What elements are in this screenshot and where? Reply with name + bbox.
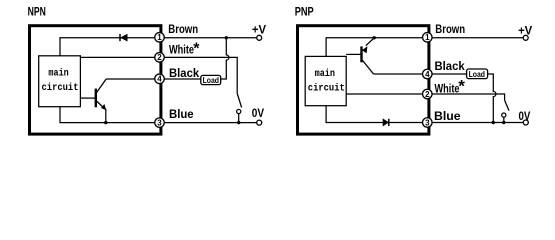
wire: main circuit top to brown rail (NPN) bbox=[60, 38, 155, 56]
wire: base drive from main circuit (PNP) bbox=[346, 53, 360, 55]
svg-text:Load: Load bbox=[469, 69, 485, 79]
svg-text:PNP: PNP bbox=[295, 6, 314, 18]
wire: switch stub to 0V rail (PNP) bbox=[503, 117, 505, 122]
terminal pin 3 (PNP) bbox=[423, 118, 433, 128]
wire: brown lead to +V (PNP) bbox=[432, 37, 523, 39]
terminal pin 2 (NPN) bbox=[155, 53, 165, 63]
wire: main circuit bottom to blue rail (NPN) bbox=[60, 107, 155, 123]
wire: switch stub to 0V rail (NPN) bbox=[238, 114, 240, 123]
svg-text:0V: 0V bbox=[252, 106, 264, 120]
terminal pin 4 (NPN) bbox=[155, 74, 165, 84]
svg-text:Blue: Blue bbox=[434, 109, 461, 123]
svg-text:1: 1 bbox=[425, 33, 430, 42]
sensor body box (NPN) bbox=[30, 26, 161, 134]
switch S1 blade (NPN) bbox=[237, 93, 241, 107]
terminal pin 3 (NPN) bbox=[155, 118, 165, 128]
svg-text:*: * bbox=[193, 41, 200, 58]
wire: black lead to load (PNP) bbox=[432, 73, 467, 75]
main circuit block U2 (PNP) bbox=[305, 56, 346, 105]
wire: collector to pin 4 (PNP) bbox=[374, 73, 423, 75]
junction dot brown/load (NPN) bbox=[225, 36, 228, 39]
diode D2 reverse-protection (PNP) bbox=[383, 119, 389, 126]
terminal pin 1 (NPN) bbox=[155, 33, 165, 43]
main circuit label (NPN) bbox=[42, 68, 79, 94]
svg-text:2: 2 bbox=[425, 90, 430, 99]
svg-text:NPN: NPN bbox=[28, 7, 46, 19]
svg-text:0V: 0V bbox=[519, 109, 531, 123]
wire: brown lead to +V (NPN) bbox=[164, 37, 256, 39]
svg-text:3: 3 bbox=[425, 118, 430, 127]
terminal pin 4 (PNP) bbox=[423, 69, 433, 79]
wire: load to +V rail with hop over white (NPN) bbox=[221, 38, 229, 79]
svg-text:*: * bbox=[458, 77, 465, 96]
wire: emitter down to 0V rail (NPN) bbox=[105, 109, 107, 123]
terminal pin 2 (PNP) bbox=[423, 89, 433, 99]
transistor Q2 PNP output bbox=[362, 38, 375, 74]
svg-text:1: 1 bbox=[157, 33, 162, 42]
svg-text:White: White bbox=[435, 82, 460, 96]
main circuit label (PNP) bbox=[308, 68, 345, 94]
wire: white control from main circuit to pin 2 (PNP) bbox=[346, 93, 422, 95]
svg-text:Brown: Brown bbox=[168, 22, 198, 36]
main circuit block U1 (NPN) bbox=[39, 56, 81, 107]
wire: blue lead to 0V (PNP) bbox=[432, 122, 523, 124]
terminal 0V (NPN) bbox=[257, 120, 262, 125]
wire: main circuit bottom to blue rail (PNP) bbox=[326, 106, 423, 123]
terminal +V (NPN) bbox=[257, 35, 262, 40]
junction dot load/0V (PNP) bbox=[492, 121, 495, 124]
svg-text:Brown: Brown bbox=[435, 22, 465, 36]
svg-text:4: 4 bbox=[157, 75, 162, 84]
svg-text:circuit: circuit bbox=[308, 82, 345, 94]
wire: white lead to switch (PNP) bbox=[432, 94, 505, 100]
terminal 0V (PNP) bbox=[523, 120, 528, 125]
switch S2 contact (PNP) bbox=[502, 113, 506, 117]
diode D1 reverse-protection (NPN) bbox=[120, 34, 127, 41]
junction dot switch/0V (NPN) bbox=[237, 121, 240, 124]
svg-text:main: main bbox=[48, 68, 68, 80]
svg-text:+V: +V bbox=[518, 23, 532, 37]
wire: collector to pin 4 (NPN) bbox=[106, 78, 155, 80]
wire: base drive from main circuit (NPN) bbox=[80, 97, 95, 99]
svg-text:4: 4 bbox=[425, 70, 430, 79]
svg-text:+V: +V bbox=[252, 22, 266, 36]
wire: load down to 0V rail with hop over white (PNP) bbox=[488, 74, 496, 123]
svg-text:2: 2 bbox=[157, 53, 162, 62]
terminal pin 1 (PNP) bbox=[423, 33, 433, 43]
svg-text:Black: Black bbox=[169, 66, 199, 80]
terminal +V (PNP) bbox=[523, 35, 528, 40]
switch S2 blade (PNP) bbox=[505, 100, 509, 110]
wire: black lead to load (NPN) bbox=[164, 78, 201, 80]
svg-text:3: 3 bbox=[157, 118, 162, 127]
wire: main circuit top to brown rail (PNP) bbox=[326, 38, 423, 57]
wire: blue lead to 0V (NPN) bbox=[164, 122, 256, 124]
svg-text:Black: Black bbox=[435, 59, 465, 73]
wire: white lead to switch drop (NPN) bbox=[164, 57, 237, 93]
svg-text:White: White bbox=[169, 43, 194, 57]
junction dot emitter/0V (NPN) bbox=[104, 121, 107, 124]
load RL box (PNP) bbox=[467, 69, 488, 79]
load RL box (NPN) bbox=[201, 75, 221, 85]
svg-text:Blue: Blue bbox=[169, 107, 194, 121]
sensor body box (PNP) bbox=[298, 26, 429, 134]
junction dot switch/0V (PNP) bbox=[502, 121, 505, 124]
svg-text:main: main bbox=[315, 68, 335, 80]
junction dot emitter/brown (PNP) bbox=[373, 36, 376, 39]
svg-text:Load: Load bbox=[203, 75, 219, 85]
transistor Q1 NPN output bbox=[96, 79, 107, 110]
switch S1 contact (NPN) bbox=[237, 109, 241, 113]
wire: white control from main circuit to pin 2 (NPN) bbox=[80, 56, 154, 58]
svg-text:circuit: circuit bbox=[42, 82, 79, 94]
